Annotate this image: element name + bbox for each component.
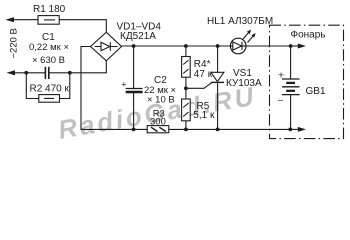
svg-text:× 630 В: × 630 В [32, 55, 65, 66]
wire: R4 top lead [185, 46, 187, 57]
svg-text:КУ103А: КУ103А [226, 78, 262, 89]
wire: LED to lantern box [246, 45, 291, 47]
wire: bottom DC rail from R3 into lantern box [169, 128, 290, 130]
node: C2 top junction [132, 44, 136, 48]
arrow: left mains bottom terminal [7, 70, 16, 75]
resistor R2 [39, 95, 60, 103]
capacitor C2 [126, 46, 143, 129]
svg-text:+: + [278, 70, 284, 82]
node: gate junction [184, 86, 188, 90]
svg-text:300: 300 [150, 116, 166, 127]
svg-text:47 к: 47 к [194, 69, 213, 80]
svg-text:5,1 к: 5,1 к [193, 110, 215, 121]
wire: top mains rail from arrow to R1 [11, 19, 38, 21]
node: junction C1 right / R2 [68, 71, 72, 75]
arrow: to lamp (bottom) [290, 128, 300, 130]
svg-text:R2 470 к: R2 470 к [30, 84, 70, 95]
svg-text:Фонарь: Фонарь [291, 29, 326, 40]
resistor R1 [38, 16, 59, 25]
resistor R3 [147, 126, 169, 133]
svg-text:R1 180: R1 180 [33, 4, 66, 15]
node: battery minus junction [288, 127, 292, 131]
svg-text:КД521А: КД521А [120, 31, 156, 42]
thyristor VS1 [211, 46, 224, 129]
node: R4 top junction [184, 44, 188, 48]
node: VS1 anode junction [216, 44, 220, 48]
battery GB1 [282, 46, 300, 129]
node: C2 bottom junction [132, 127, 136, 131]
wire: DC minus from bridge left vertex down to bottom rail [81, 47, 147, 130]
svg-text:HL1 АЛ307БМ: HL1 АЛ307БМ [207, 16, 273, 27]
LED HL1 [230, 30, 255, 54]
resistor R4 [182, 57, 191, 78]
svg-text:+: + [121, 80, 126, 90]
node: battery plus junction [289, 44, 293, 48]
wire: gate wire to VS1 [186, 82, 212, 88]
wire: DC plus rail from bridge right vertex to LED [122, 45, 231, 47]
wire: R5 bottom lead [185, 121, 187, 130]
wire: R2 right lead [60, 73, 70, 99]
watermark [56, 81, 259, 145]
arrow: to lamp (top) [291, 45, 300, 47]
wire: R4 bottom lead to gate node [185, 77, 187, 99]
svg-text:GB1: GB1 [306, 86, 326, 97]
wire: bottom mains rail left part [12, 72, 45, 74]
svg-text:× 10 В: × 10 В [147, 95, 175, 106]
wire: top rail from R1 to corner, down to bridge top vertex [59, 20, 106, 33]
svg-text:–: – [278, 95, 284, 106]
resistor R5 [182, 99, 191, 121]
arrow: left mains top terminal [6, 17, 15, 22]
svg-text:0,22 мк ×: 0,22 мк × [29, 42, 69, 53]
lantern dashed box (Фонарь) [270, 25, 344, 138]
node: junction C1 left / R2 [24, 71, 28, 75]
node: R5 bottom junction [184, 127, 188, 131]
wire: R2 left lead [26, 73, 39, 99]
capacitor C1 [45, 67, 48, 79]
wire: bottom mains rail right part to bridge bottom vertex [49, 61, 106, 73]
svg-text:~220 В: ~220 В [9, 28, 20, 58]
node: VS1 cathode junction [216, 127, 220, 131]
bridge rectifier VD1-VD4 [91, 32, 122, 61]
